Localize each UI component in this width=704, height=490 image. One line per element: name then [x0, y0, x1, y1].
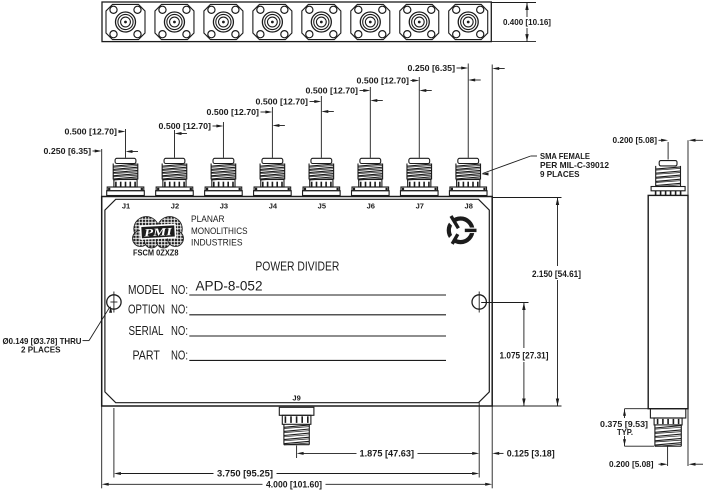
- extension line right hole bottom: [478, 402, 480, 478]
- dimension 0.400 top view: [491, 3, 551, 42]
- connector J1: [107, 158, 145, 195]
- top-view SMA flange 6: [351, 4, 390, 39]
- dimension 2.150 body height: [492, 198, 581, 407]
- mounting hole left: [107, 292, 121, 313]
- connector J5: [303, 158, 341, 195]
- PMI logo globes: [133, 217, 184, 249]
- svg-text:J6: J6: [367, 202, 375, 211]
- dimension tick at J2: [175, 132, 187, 135]
- svg-text:PLANAR: PLANAR: [191, 214, 225, 225]
- SERIAL NO row: [129, 323, 447, 338]
- dimension 0.500 J4-J5: [256, 97, 322, 106]
- extension line J6 center: [369, 87, 371, 158]
- svg-text:TYP.: TYP.: [617, 428, 633, 437]
- svg-text:MODEL: MODEL: [128, 282, 164, 297]
- svg-text:J7: J7: [416, 202, 424, 211]
- dimension 0.375 TYP side view: [600, 409, 654, 447]
- svg-text:3.750 [95.25]: 3.750 [95.25]: [217, 469, 273, 479]
- svg-text:0.400 [10.16]: 0.400 [10.16]: [503, 18, 551, 27]
- svg-text:1.075 [27.31]: 1.075 [27.31]: [500, 351, 549, 361]
- top-view SMA flange 1: [106, 4, 145, 39]
- extension line J1 center: [125, 129, 127, 158]
- connector J2: [156, 158, 194, 195]
- svg-text:J3: J3: [220, 202, 228, 211]
- dimension 1.075 hole to bottom edge: [481, 303, 548, 407]
- svg-text:J9: J9: [292, 394, 300, 403]
- PART NO row: [133, 348, 447, 363]
- dimension 0.200 bottom side view: [609, 409, 703, 470]
- dimension 0.500 J2-J3: [159, 122, 224, 131]
- dimension tick at J6: [370, 99, 383, 102]
- svg-text:SMA FEMALE: SMA FEMALE: [540, 152, 590, 161]
- extension line body right edge bottom: [491, 406, 493, 488]
- dimension 0.200 top side view: [613, 136, 704, 195]
- dimension 4.000 body width: [102, 479, 493, 489]
- extension line J4 center: [271, 107, 273, 158]
- connector J6: [352, 158, 390, 195]
- side view bottom connector: [650, 409, 685, 447]
- dimension 0.500 J3-J4: [207, 108, 273, 117]
- extension line J5 center: [320, 96, 322, 158]
- extension line body left edge top: [101, 149, 103, 197]
- svg-text:NO:: NO:: [171, 282, 188, 297]
- svg-text:0.500 [12.70]: 0.500 [12.70]: [357, 76, 410, 85]
- svg-text:POWER DIVIDER: POWER DIVIDER: [255, 259, 339, 274]
- top-view SMA flange 3: [204, 4, 243, 39]
- dimension 0.250 body left edge to J1: [44, 147, 102, 156]
- dimension tick at J4: [272, 124, 284, 127]
- dimension tick at body right edge: [492, 67, 505, 70]
- svg-text:0.500 [12.70]: 0.500 [12.70]: [306, 86, 359, 95]
- svg-text:NO:: NO:: [171, 302, 188, 317]
- connector J3: [205, 158, 243, 195]
- svg-text:0.200 [5.08]: 0.200 [5.08]: [609, 460, 654, 469]
- svg-text:J5: J5: [318, 202, 326, 211]
- extension line J2 center: [173, 130, 175, 158]
- svg-text:2 PLACES: 2 PLACES: [21, 345, 61, 354]
- svg-text:J8: J8: [465, 202, 473, 211]
- dimension tick at J7: [419, 89, 431, 92]
- svg-text:SERIAL: SERIAL: [129, 323, 164, 338]
- SMA female note: [482, 152, 610, 179]
- svg-text:NO:: NO:: [171, 323, 188, 338]
- svg-text:APD-8-052: APD-8-052: [196, 279, 263, 294]
- svg-text:9 PLACES: 9 PLACES: [540, 170, 580, 179]
- svg-text:OPTION: OPTION: [128, 302, 165, 317]
- dimension 0.125 chamfer offset: [492, 449, 555, 459]
- PLANAR MONOLITHICS INDUSTRIES text: [191, 214, 248, 248]
- dimension 3.750 hole spacing: [114, 469, 479, 479]
- svg-text:NO:: NO:: [171, 348, 188, 363]
- dimension 0.500 J5-J6: [306, 86, 371, 95]
- svg-text:J2: J2: [171, 202, 179, 211]
- svg-text:0.500 [12.70]: 0.500 [12.70]: [159, 122, 212, 131]
- mounting hole right: [472, 292, 486, 313]
- dimension 0.250 J8 to body right edge: [408, 64, 469, 73]
- svg-text:0.500 [12.70]: 0.500 [12.70]: [207, 108, 260, 117]
- svg-text:PMI: PMI: [144, 226, 174, 239]
- svg-text:1.875 [47.63]: 1.875 [47.63]: [360, 449, 415, 459]
- extension line body right edge top: [491, 65, 493, 197]
- side view top connector: [651, 161, 685, 195]
- connector J4: [254, 158, 292, 195]
- top-view SMA flange 2: [155, 4, 194, 39]
- extension line J9 center bottom: [296, 446, 298, 459]
- extension line J7 center: [418, 77, 420, 158]
- svg-text:PER MIL-C-39012: PER MIL-C-39012: [540, 161, 609, 170]
- label plate outline: [105, 199, 489, 402]
- top-view SMA flange 8: [449, 4, 488, 39]
- dimension tick at J5: [321, 110, 334, 113]
- svg-text:4.000 [101.60]: 4.000 [101.60]: [266, 479, 322, 489]
- svg-text:0.125 [3.18]: 0.125 [3.18]: [507, 449, 555, 459]
- svg-text:INDUSTRIES: INDUSTRIES: [191, 237, 243, 248]
- dimension tick at J1: [126, 150, 139, 153]
- connector J9: [279, 407, 314, 445]
- top-view SMA flange 4: [253, 4, 292, 39]
- svg-text:0.500 [12.70]: 0.500 [12.70]: [65, 127, 118, 136]
- extension line body left edge bottom: [101, 406, 103, 488]
- top-view SMA flange 7: [400, 4, 439, 39]
- extension line left hole bottom: [113, 408, 115, 478]
- MODEL NO row: [128, 282, 446, 297]
- connector J7: [400, 158, 438, 195]
- top view mounting bar: [102, 2, 491, 42]
- power divider body outline: [102, 197, 493, 407]
- dimension tick at J8: [468, 79, 481, 82]
- dimension 1.875 J9 to right hole line: [297, 449, 480, 459]
- svg-text:0.500 [12.70]: 0.500 [12.70]: [256, 97, 309, 106]
- svg-text:PART: PART: [133, 348, 160, 363]
- svg-text:0.250 [6.35]: 0.250 [6.35]: [44, 147, 92, 156]
- svg-text:2.150 [54.61]: 2.150 [54.61]: [532, 269, 581, 279]
- svg-text:0.250 [6.35]: 0.250 [6.35]: [408, 64, 456, 73]
- top-view SMA flange 5: [302, 4, 341, 39]
- extension line J3 center: [222, 122, 224, 158]
- hole diameter note: [3, 306, 113, 355]
- circular ESD symbol: [449, 216, 478, 244]
- svg-text:0.200 [5.08]: 0.200 [5.08]: [613, 136, 658, 145]
- connector J8: [449, 158, 487, 195]
- svg-text:J4: J4: [269, 202, 278, 211]
- extension line J8 center: [467, 64, 469, 158]
- svg-text:FSCM 0ZXZ8: FSCM 0ZXZ8: [133, 248, 179, 257]
- side view body: [648, 195, 688, 408]
- svg-text:J1: J1: [122, 202, 130, 211]
- dimension 0.500 J1-J2: [65, 127, 126, 136]
- dimension 0.500 J6-J7: [357, 76, 420, 85]
- svg-text:MONOLITHICS: MONOLITHICS: [191, 226, 248, 237]
- PMI logo band: [140, 224, 175, 239]
- OPTION NO row: [128, 302, 446, 317]
